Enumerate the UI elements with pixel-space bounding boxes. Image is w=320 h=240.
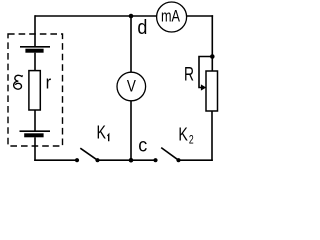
resistor r rectangle (29, 71, 40, 110)
wire bottom middle segment (98, 159, 156, 161)
battery cell 1 long plate (20, 46, 50, 48)
wire left vertical bottom (34, 137, 36, 161)
switch K1 left contact dot (75, 158, 79, 162)
voltmeter V circle (117, 72, 146, 101)
switch K2 right contact dot (176, 158, 180, 162)
wire between battery cell 1 and resistor r (34, 53, 36, 71)
switch K2 blade (161, 148, 178, 161)
wire between resistor r and battery cell 2 (34, 110, 36, 131)
EMF label script-E (14, 75, 23, 89)
wire top horizontal right segment (186, 15, 213, 17)
dashed box around battery (8, 34, 63, 146)
milliammeter mA circle (157, 2, 187, 32)
switch K1 blade (80, 148, 97, 160)
switch K2 left contact dot (153, 158, 157, 162)
svg-text:2: 2 (189, 133, 194, 147)
battery cell 2 short thick plate (24, 133, 43, 137)
wire voltmeter branch lower (130, 101, 132, 160)
svg-text:K: K (97, 123, 107, 143)
svg-text:d: d (137, 17, 147, 39)
svg-text:r: r (46, 73, 52, 93)
svg-text:R: R (184, 64, 194, 86)
node d junction dot (129, 14, 134, 19)
svg-text:mA: mA (161, 7, 181, 26)
battery cell 2 long plate (20, 130, 51, 132)
node junction dot on right branch (210, 54, 215, 59)
switch K1 right contact dot (95, 158, 99, 162)
wire bottom left segment (34, 159, 77, 161)
wire left vertical top (34, 15, 36, 46)
wire top horizontal left segment (35, 15, 157, 17)
svg-text:c: c (138, 136, 147, 157)
wire right vertical top (211, 15, 213, 71)
resistor R rectangle (206, 71, 218, 111)
wire bottom right segment (179, 159, 213, 161)
node c junction dot (129, 158, 134, 163)
svg-text:V: V (127, 78, 136, 96)
svg-text:K: K (178, 125, 188, 145)
wire voltmeter branch upper (130, 16, 132, 72)
wire rheostat slider branch (199, 57, 212, 88)
battery cell 1 short thick plate (25, 49, 43, 53)
wire right vertical bottom (211, 111, 213, 161)
rheostat slider arrowhead (201, 84, 206, 90)
